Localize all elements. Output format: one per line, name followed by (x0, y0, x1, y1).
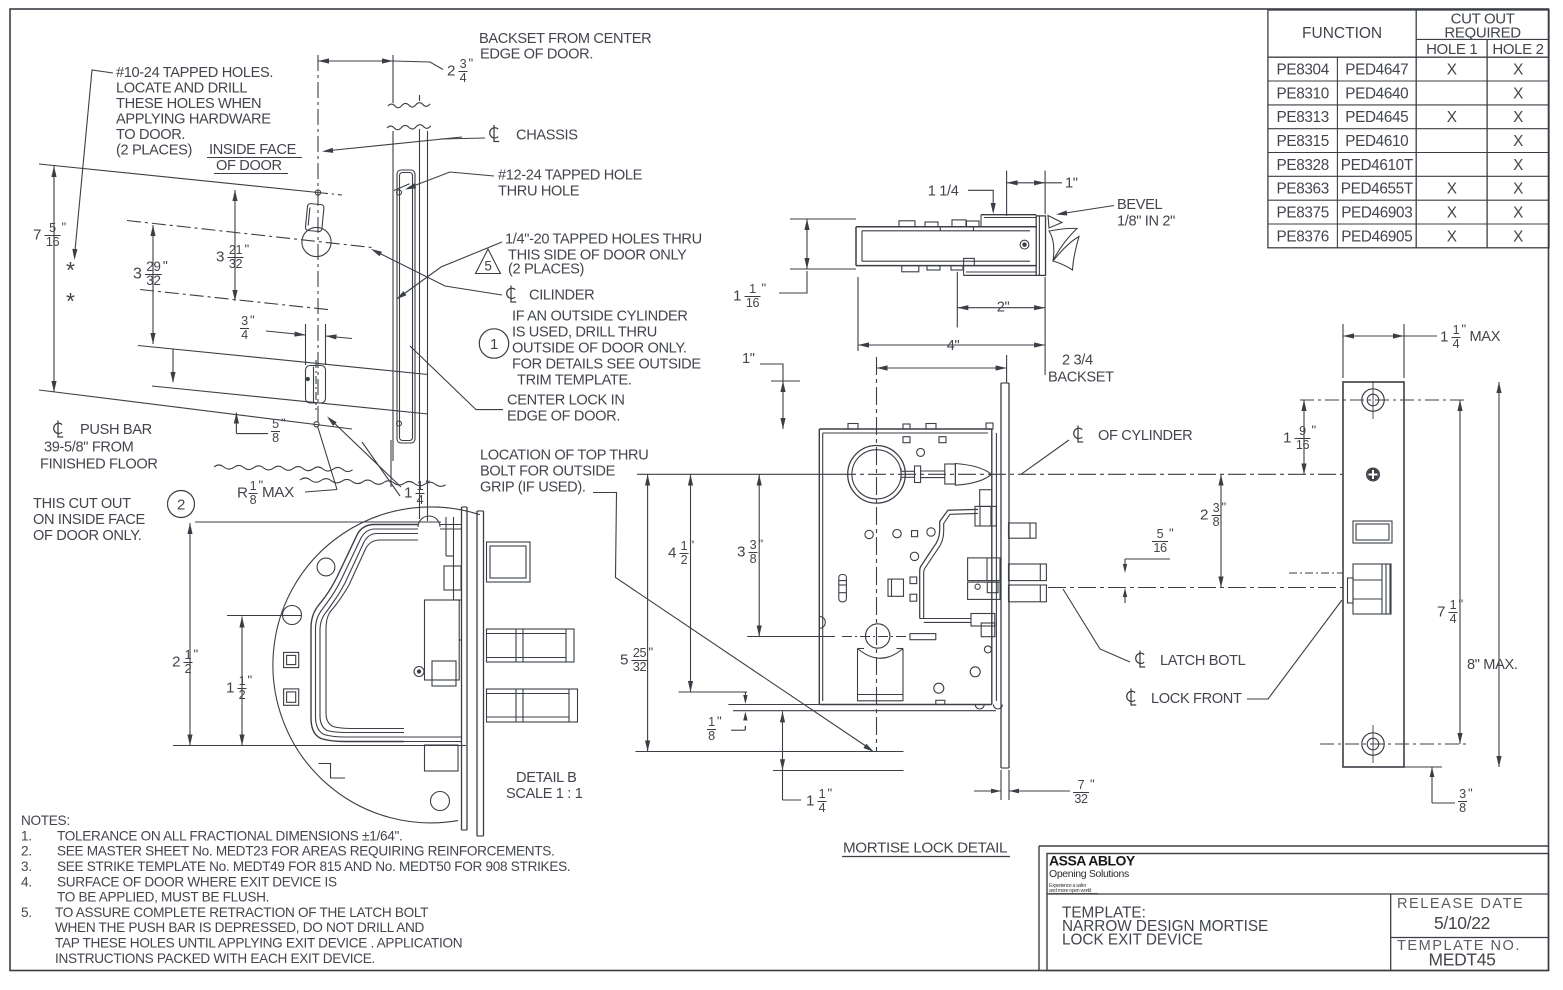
svg-text:21: 21 (229, 243, 243, 257)
svg-text:": " (1459, 597, 1464, 612)
dimension 1 1/16 top view (733, 219, 856, 310)
svg-text:": " (248, 673, 253, 688)
svg-text:1: 1 (1450, 598, 1457, 612)
svg-text:X: X (1513, 133, 1523, 150)
svg-text:PE8363: PE8363 (1277, 181, 1329, 198)
svg-text:": " (1468, 786, 1473, 801)
svg-text:": " (62, 220, 67, 235)
svg-text:32: 32 (229, 257, 243, 271)
detail B reference lines (173, 522, 466, 746)
dimension 3 21/32 (216, 190, 250, 301)
svg-text:5.: 5. (21, 905, 32, 920)
dimension 1 1/4 bottom (780, 711, 833, 815)
svg-text:": " (762, 281, 767, 296)
detail B boundary circle (273, 507, 480, 823)
dimension 1 1/4 top view (928, 184, 996, 215)
svg-text:IS USED, DRILL THRU: IS USED, DRILL THRU (512, 325, 657, 341)
svg-text:FUNCTION: FUNCTION (1302, 25, 1382, 42)
svg-text:PE8328: PE8328 (1277, 157, 1329, 174)
svg-text:MEDT45: MEDT45 (1429, 950, 1496, 970)
svg-text:3: 3 (216, 248, 224, 265)
svg-text:OUTSIDE OF DOOR ONLY.: OUTSIDE OF DOOR ONLY. (512, 341, 687, 357)
svg-text:1: 1 (1440, 328, 1448, 345)
svg-text:3.: 3. (21, 859, 32, 874)
svg-text:4: 4 (1453, 337, 1460, 351)
svg-text:1: 1 (806, 792, 814, 809)
deadlatch assembly inside case (968, 558, 1000, 599)
svg-text:1/8" IN 2": 1/8" IN 2" (1117, 214, 1175, 230)
svg-text:#10-24 TAPPED HOLES.: #10-24 TAPPED HOLES. (116, 65, 273, 81)
svg-text:HOLE 1: HOLE 1 (1426, 41, 1477, 58)
svg-text:": " (1462, 322, 1467, 337)
svg-text:NOTES:: NOTES: (21, 813, 70, 828)
title block with ASSA ABLOY logo (1039, 846, 1549, 971)
svg-text:Opening Solutions: Opening Solutions (1049, 868, 1129, 880)
svg-text:THIS CUT OUT: THIS CUT OUT (33, 496, 131, 512)
svg-text:29: 29 (146, 259, 160, 274)
svg-text:INSTRUCTIONS PACKED WITH EACH: INSTRUCTIONS PACKED WITH EACH EXIT DEVIC… (55, 951, 375, 966)
detail B cut-out profile (311, 516, 462, 742)
dimension 7 5/16 with asterisks (33, 166, 75, 392)
svg-text:4.: 4. (21, 874, 32, 889)
svg-text:1: 1 (185, 648, 192, 662)
svg-text:LOCATE AND DRILL: LOCATE AND DRILL (116, 81, 247, 97)
svg-text:2: 2 (239, 688, 246, 702)
dimension 7 1/4 (1320, 400, 1467, 744)
svg-text:SEE STRIKE TEMPLATE No. MEDT49: SEE STRIKE TEMPLATE No. MEDT49 FOR 815 A… (57, 859, 570, 874)
dimension 3/8 bottom (1404, 767, 1473, 815)
svg-text:1: 1 (708, 715, 715, 729)
svg-text:1": 1" (742, 351, 755, 367)
svg-text:3: 3 (241, 314, 248, 328)
#12-24 tapped hole callout (405, 168, 643, 200)
svg-text:X: X (1447, 109, 1457, 126)
svg-text:*: * (66, 257, 75, 283)
svg-text:3: 3 (460, 57, 467, 71)
svg-text:RELEASE DATE: RELEASE DATE (1397, 896, 1524, 912)
svg-text:16: 16 (1153, 541, 1167, 555)
svg-text:3: 3 (737, 543, 745, 560)
svg-text:1: 1 (749, 282, 756, 296)
detail B holes and squares (283, 558, 450, 810)
svg-text:BOLT FOR OUTSIDE: BOLT FOR OUTSIDE (480, 464, 616, 480)
svg-text:": " (1312, 423, 1317, 438)
detail B caption (506, 770, 583, 802)
svg-text:MAX: MAX (1470, 329, 1501, 345)
svg-text:": " (281, 416, 286, 431)
node on inside-face line (315, 190, 320, 195)
svg-text:1: 1 (490, 336, 498, 353)
svg-text:OF DOOR ONLY.: OF DOOR ONLY. (33, 528, 141, 544)
dimension 4 inch top view (858, 277, 1045, 354)
svg-text:5: 5 (49, 221, 56, 235)
svg-text:8: 8 (1459, 801, 1466, 815)
outside cylinder instruction with circled 1 (479, 309, 701, 389)
svg-text:5: 5 (1157, 527, 1164, 541)
detail B protruding bolts (487, 542, 578, 722)
svg-text:1: 1 (681, 539, 688, 553)
svg-text:LOCK EXIT DEVICE: LOCK EXIT DEVICE (1062, 932, 1203, 949)
svg-text:": " (649, 645, 654, 660)
dimension 4 1/2 (668, 475, 695, 693)
svg-text:1: 1 (417, 479, 424, 493)
svg-text:2: 2 (1200, 506, 1208, 523)
dimension 2 3/8 (1200, 475, 1227, 588)
svg-text:X: X (1447, 62, 1457, 79)
svg-text:PED46905: PED46905 (1341, 228, 1412, 245)
svg-text:SURFACE OF DOOR WHERE EXIT DEV: SURFACE OF DOOR WHERE EXIT DEVICE IS (57, 874, 337, 889)
svg-text:CHASSIS: CHASSIS (516, 128, 578, 144)
svg-text:8: 8 (1213, 515, 1220, 529)
dimension 1/8 (707, 692, 748, 743)
svg-text:CILINDER: CILINDER (529, 288, 594, 304)
svg-text:1: 1 (1283, 429, 1291, 446)
bevel 1/8 in 2 label (1056, 197, 1175, 230)
dimension 5/8 (170, 349, 286, 445)
svg-text:INSIDE FACE: INSIDE FACE (209, 142, 297, 158)
svg-text:": " (690, 538, 695, 553)
bottom reference lines (636, 637, 997, 771)
svg-text:PED4610T: PED4610T (1341, 157, 1413, 174)
lock front plate edge-on (1001, 383, 1009, 768)
door bottom leader lines (362, 440, 400, 496)
svg-text:": " (163, 258, 168, 274)
svg-text:EDGE OF DOOR.: EDGE OF DOOR. (480, 47, 593, 63)
svg-text:": " (469, 56, 474, 71)
centerline lock front callout (1127, 600, 1342, 707)
svg-text:": " (828, 786, 833, 801)
svg-text:PE8375: PE8375 (1277, 205, 1329, 222)
svg-text:X: X (1447, 181, 1457, 198)
dimension 3 29/32 (133, 225, 168, 344)
dimension 1 inch top view (1007, 171, 1078, 216)
svg-text:4: 4 (668, 544, 676, 561)
svg-text:TO ASSURE COMPLETE RETRACTION: TO ASSURE COMPLETE RETRACTION OF THE LAT… (55, 905, 428, 920)
svg-text:3: 3 (133, 265, 142, 282)
misc lock bottom parts (819, 616, 1002, 709)
svg-text:TOLERANCE ON ALL FRACTIONAL DI: TOLERANCE ON ALL FRACTIONAL DIMENSIONS ±… (57, 828, 402, 843)
dimension 7/32 faceplate thickness (974, 770, 1095, 806)
svg-text:16: 16 (1296, 438, 1310, 452)
svg-text:THESE HOLES WHEN: THESE HOLES WHEN (116, 96, 261, 112)
svg-text:1: 1 (250, 479, 257, 493)
door bevel indication (1048, 216, 1079, 271)
svg-text:BACKSET: BACKSET (1048, 370, 1114, 386)
svg-text:": " (1222, 500, 1227, 515)
centerline of cylinder callout (1021, 426, 1192, 475)
svg-text:7: 7 (1078, 778, 1085, 792)
svg-text:3: 3 (750, 538, 757, 552)
svg-text:": " (245, 242, 250, 257)
svg-text:PED4640: PED4640 (1345, 85, 1408, 102)
svg-text:8: 8 (272, 431, 279, 445)
svg-text:2: 2 (185, 662, 192, 676)
slanted projection lines of door view (39, 164, 428, 429)
lock case top view (856, 215, 1046, 276)
dimension 2 3/4 backset from center (318, 56, 474, 86)
svg-text:LATCH BOTL: LATCH BOTL (1160, 653, 1246, 669)
svg-text:PED4647: PED4647 (1345, 62, 1408, 79)
svg-text:": " (250, 313, 255, 328)
lock front plate view (1343, 381, 1404, 767)
svg-text:THRU HOLE: THRU HOLE (498, 184, 580, 200)
inside face of door label with arrow (207, 137, 462, 174)
svg-text:X: X (1513, 109, 1523, 126)
svg-text:(2 PLACES): (2 PLACES) (116, 143, 192, 159)
svg-text:2: 2 (681, 553, 688, 567)
door edge view with mortise slot (214, 55, 446, 521)
svg-text:LOCK FRONT: LOCK FRONT (1151, 691, 1242, 707)
svg-text:#12-24 TAPPED HOLE: #12-24 TAPPED HOLE (498, 168, 643, 184)
svg-text:2": 2" (997, 300, 1010, 316)
location of top thru bolt callout with long leader (480, 448, 874, 753)
centerline latch bolt callout (1063, 589, 1246, 669)
svg-text:(2 PLACES): (2 PLACES) (508, 262, 584, 278)
svg-text:PE8376: PE8376 (1277, 228, 1329, 245)
latch bolt and auxiliary bolt (1009, 523, 1047, 602)
svg-text:TO DOOR.: TO DOOR. (116, 127, 185, 143)
svg-text:BACKSET FROM CENTER: BACKSET FROM CENTER (479, 31, 651, 47)
svg-text:7: 7 (33, 226, 41, 243)
svg-text:1": 1" (1065, 176, 1078, 192)
svg-text:X: X (1447, 228, 1457, 245)
svg-text:PUSH BAR: PUSH BAR (80, 422, 152, 438)
svg-text:PE8304: PE8304 (1277, 62, 1330, 79)
svg-text:": " (194, 647, 199, 662)
svg-text:5: 5 (484, 259, 491, 274)
svg-text:1.: 1. (21, 828, 32, 843)
svg-text:GRIP (IF USED).: GRIP (IF USED). (480, 480, 586, 496)
chassis centerline callout (440, 125, 578, 144)
svg-text:APPLYING HARDWARE: APPLYING HARDWARE (116, 112, 271, 128)
svg-text:1: 1 (819, 787, 826, 801)
svg-text:CENTER LOCK IN: CENTER LOCK IN (507, 393, 625, 409)
dimension 1 1/4 max (1343, 322, 1501, 379)
#10-24 tapped holes note with leader (72, 65, 273, 260)
lock cylinder circles (848, 446, 906, 504)
svg-text:EDGE OF DOOR.: EDGE OF DOOR. (507, 409, 620, 425)
svg-text:FINISHED FLOOR: FINISHED FLOOR (40, 457, 158, 473)
svg-text:R: R (237, 484, 248, 501)
svg-text:2.: 2. (21, 844, 32, 859)
svg-text:32: 32 (1074, 792, 1088, 806)
svg-text:X: X (1447, 205, 1457, 222)
backset from center note (479, 31, 651, 63)
detail B mounting plate bars (462, 507, 484, 836)
svg-text:25: 25 (633, 646, 647, 660)
svg-text:2 3/4: 2 3/4 (1062, 353, 1093, 369)
svg-text:": " (717, 714, 722, 729)
this cut out note with circled 2 (33, 491, 195, 545)
svg-text:TRIM TEMPLATE.: TRIM TEMPLATE. (517, 373, 632, 389)
svg-text:X: X (1513, 85, 1523, 102)
svg-text:X: X (1513, 228, 1523, 245)
svg-text:PE8310: PE8310 (1277, 85, 1329, 102)
svg-text:1 1/4: 1 1/4 (928, 184, 959, 200)
dimension 3 3/8 (737, 475, 764, 637)
dimension 3/4 (240, 313, 352, 366)
svg-text:2: 2 (172, 653, 180, 670)
svg-text:PED4645: PED4645 (1345, 109, 1408, 126)
detail B central blocks (414, 600, 462, 771)
svg-text:4": 4" (947, 338, 960, 354)
svg-text:4: 4 (241, 328, 248, 342)
svg-text:X: X (1513, 181, 1523, 198)
svg-text:*: * (66, 288, 75, 314)
svg-text:1/4"-20 TAPPED HOLES THRU: 1/4"-20 TAPPED HOLES THRU (505, 232, 702, 248)
svg-text:LOCATION OF TOP THRU: LOCATION OF TOP THRU (480, 448, 648, 464)
svg-text:": " (426, 478, 431, 493)
svg-text:1: 1 (1453, 323, 1460, 337)
svg-text:8" MAX.: 8" MAX. (1467, 657, 1518, 673)
svg-text:32: 32 (633, 660, 647, 674)
lock centerlines (637, 357, 1343, 752)
svg-text:1: 1 (226, 679, 234, 696)
svg-text:SEE MASTER SHEET No. MEDT23 FO: SEE MASTER SHEET No. MEDT23 FOR AREAS RE… (57, 844, 555, 859)
svg-text:BEVEL: BEVEL (1117, 197, 1163, 213)
svg-text:X: X (1513, 157, 1523, 174)
svg-text:16: 16 (746, 296, 760, 310)
svg-text:3: 3 (1459, 787, 1466, 801)
svg-text:": " (759, 537, 764, 552)
svg-text:X: X (1513, 62, 1523, 79)
function / cut-out table (1268, 10, 1549, 248)
svg-text:2: 2 (447, 62, 455, 79)
svg-text:4: 4 (1450, 612, 1457, 626)
svg-text:PE8315: PE8315 (1277, 133, 1329, 150)
svg-text:MAX: MAX (262, 484, 294, 501)
dimension 1 1/2 detail B (226, 617, 253, 746)
cylinder centerline callout (371, 249, 594, 304)
svg-text:8: 8 (750, 552, 757, 566)
svg-text:": " (1169, 526, 1174, 541)
1/4-20 tapped holes note with triangle 5 (396, 232, 702, 300)
dimension 5 25/32 (620, 475, 654, 752)
dimension 1 9/16 (1283, 400, 1467, 475)
svg-text:9: 9 (1299, 424, 1306, 438)
svg-text:8: 8 (708, 729, 715, 743)
svg-text:5: 5 (620, 651, 628, 668)
svg-text:16: 16 (46, 235, 60, 249)
notes text block (21, 813, 570, 966)
svg-text:": " (1090, 777, 1095, 792)
svg-text:ASSA ABLOY: ASSA ABLOY (1049, 853, 1136, 869)
svg-text:FOR DETAILS SEE OUTSIDE: FOR DETAILS SEE OUTSIDE (512, 357, 701, 373)
svg-text:2: 2 (177, 497, 185, 514)
svg-text:1: 1 (733, 287, 741, 304)
svg-text:REQUIRED: REQUIRED (1444, 25, 1521, 42)
svg-text:7: 7 (1437, 603, 1445, 620)
dimension 2 3/4 backset (877, 353, 1115, 386)
mortise lock detail title (842, 840, 1010, 857)
saddle block bottom left (858, 649, 904, 702)
svg-text:ON INSIDE FACE: ON INSIDE FACE (33, 512, 145, 528)
svg-text:MORTISE LOCK DETAIL: MORTISE LOCK DETAIL (843, 840, 1007, 857)
svg-text:5: 5 (272, 417, 279, 431)
1 1/4 door edge dimension leader (327, 417, 431, 508)
svg-text:PED4655T: PED4655T (1341, 181, 1413, 198)
svg-text:WHEN THE PUSH BAR IS DEPRESSED: WHEN THE PUSH BAR IS DEPRESSED, DO NOT D… (55, 920, 425, 935)
svg-text:4: 4 (460, 71, 467, 85)
lower hub circle with crosshair (842, 624, 907, 648)
svg-text:PE8313: PE8313 (1277, 109, 1329, 126)
svg-text:4: 4 (819, 801, 826, 815)
svg-text:OF DOOR: OF DOOR (216, 158, 282, 174)
svg-text:4: 4 (417, 493, 424, 507)
svg-text:HOLE 2: HOLE 2 (1492, 41, 1543, 58)
svg-text:TAP THESE HOLES UNTIL APPLYING: TAP THESE HOLES UNTIL APPLYING EXIT DEVI… (55, 936, 462, 951)
dimension 2 inch top view (957, 272, 1045, 375)
svg-text:SCALE 1 : 1: SCALE 1 : 1 (506, 786, 583, 802)
svg-text:32: 32 (146, 273, 160, 288)
spindle and pointed shaft (901, 464, 991, 486)
svg-text:IF AN OUTSIDE CYLINDER: IF AN OUTSIDE CYLINDER (512, 309, 688, 325)
mortise lock case outline (819, 423, 996, 705)
dimension 5/16 (1123, 526, 1174, 604)
svg-text:39-5/8" FROM: 39-5/8" FROM (44, 440, 133, 456)
svg-text:3: 3 (1213, 501, 1220, 515)
push bar height note (40, 421, 158, 473)
thru-bolt location rounded rectangle (306, 360, 326, 410)
svg-text:8: 8 (250, 493, 257, 507)
lock follower hub outline (920, 490, 997, 626)
svg-text:OF CYLINDER: OF CYLINDER (1098, 428, 1192, 444)
svg-text:1: 1 (239, 674, 246, 688)
dimension 8 max (1467, 382, 1518, 767)
svg-text:1: 1 (404, 484, 412, 501)
svg-text:TO BE APPLIED, MUST BE FLUSH.: TO BE APPLIED, MUST BE FLUSH. (57, 890, 269, 905)
node at cut-out corner (314, 422, 319, 427)
lock internal holes and slots (839, 448, 935, 601)
svg-text:DETAIL B: DETAIL B (516, 770, 576, 786)
dimension 2 1/2 detail B (172, 523, 199, 746)
cylinder keyhole on chassis centerline (302, 203, 331, 256)
dimension 1 inch lock top (742, 351, 800, 429)
R 1/8 max radius leader (237, 426, 337, 507)
svg-text:PED46903: PED46903 (1341, 205, 1412, 222)
svg-text:5/10/22: 5/10/22 (1434, 913, 1490, 933)
svg-text:PED4610: PED4610 (1345, 133, 1408, 150)
center lock in edge of door callout (410, 346, 625, 425)
svg-text:X: X (1513, 205, 1523, 222)
